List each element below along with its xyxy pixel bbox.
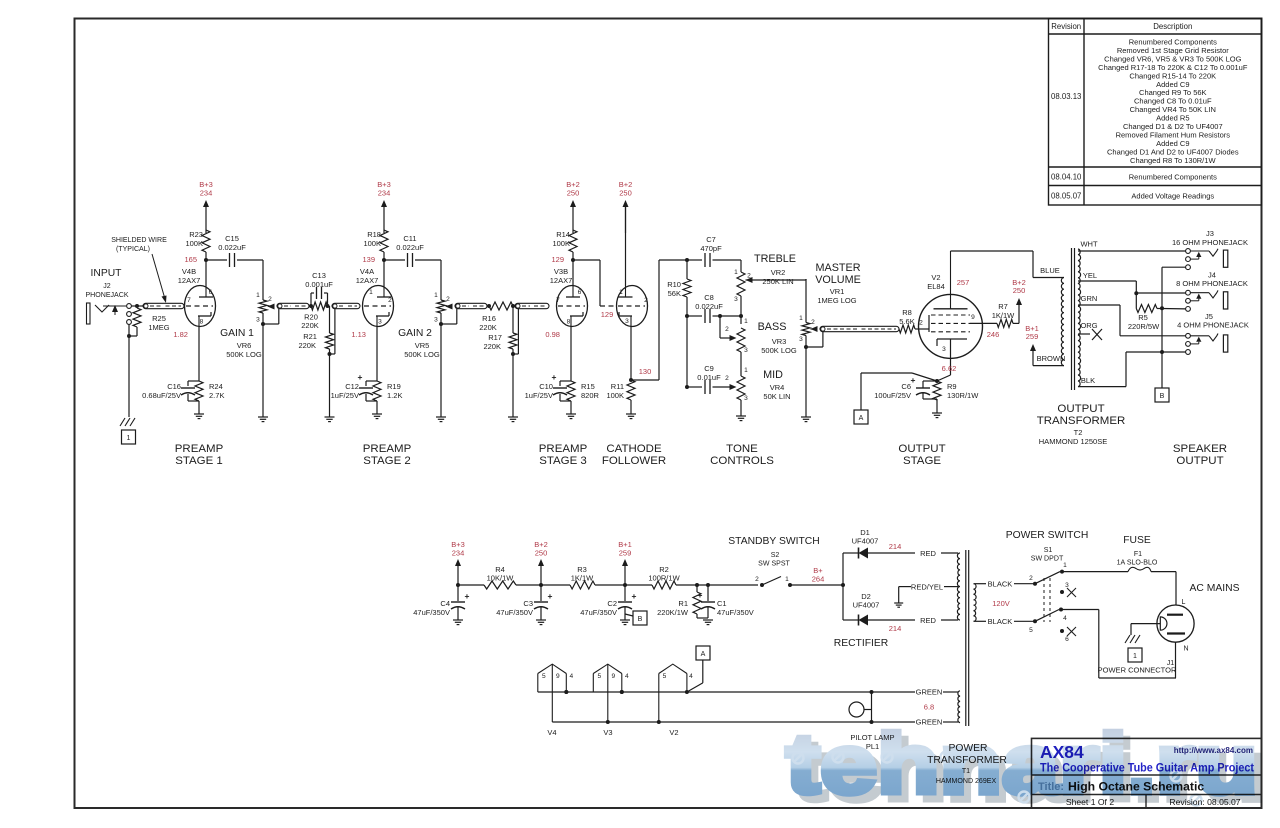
svg-text:+: + (552, 372, 557, 382)
svg-text:16 OHM PHONEJACK: 16 OHM PHONEJACK (1172, 238, 1248, 247)
svg-text:VR5: VR5 (415, 341, 430, 350)
svg-text:5.6K: 5.6K (899, 317, 914, 326)
svg-text:4: 4 (689, 673, 693, 680)
svg-text:V3: V3 (603, 728, 612, 737)
svg-text:+: + (358, 372, 363, 382)
svg-text:S1: S1 (1044, 547, 1053, 554)
svg-text:OUTPUT: OUTPUT (1176, 455, 1223, 467)
svg-text:R17: R17 (488, 333, 502, 342)
svg-text:SPEAKER: SPEAKER (1173, 443, 1227, 455)
svg-text:1A SLO-BLO: 1A SLO-BLO (1117, 560, 1158, 567)
svg-text:5: 5 (1029, 627, 1033, 634)
svg-text:C4: C4 (440, 599, 450, 608)
svg-text:C10: C10 (539, 382, 553, 391)
svg-text:CATHODE: CATHODE (606, 443, 662, 455)
svg-text:100K: 100K (185, 239, 203, 248)
svg-text:250: 250 (567, 188, 580, 197)
svg-text:STANDBY SWITCH: STANDBY SWITCH (728, 536, 819, 547)
svg-text:J3: J3 (1206, 229, 1214, 238)
svg-text:130R/1W: 130R/1W (947, 391, 979, 400)
svg-text:1: 1 (127, 435, 131, 442)
svg-text:47uF/350V: 47uF/350V (413, 608, 450, 617)
svg-text:130: 130 (639, 367, 652, 376)
svg-text:500K LOG: 500K LOG (226, 350, 262, 359)
svg-text:1: 1 (1133, 653, 1137, 660)
svg-text:2: 2 (755, 576, 759, 583)
svg-text:GAIN 1: GAIN 1 (220, 328, 254, 339)
svg-text:12AX7: 12AX7 (356, 276, 379, 285)
svg-text:1K/1W: 1K/1W (571, 574, 594, 583)
svg-text:R9: R9 (947, 382, 957, 391)
svg-text:257: 257 (957, 278, 970, 287)
svg-text:C9: C9 (704, 364, 714, 373)
svg-text:F1: F1 (1134, 551, 1142, 558)
svg-text:08.03.13: 08.03.13 (1051, 92, 1081, 101)
svg-text:+: + (911, 375, 916, 385)
svg-text:820R: 820R (581, 391, 600, 400)
svg-text:2: 2 (725, 375, 729, 382)
svg-text:3: 3 (744, 347, 748, 354)
svg-text:100uF/25V: 100uF/25V (874, 391, 911, 400)
svg-text:RED: RED (920, 616, 936, 625)
svg-text:SHIELDED WIRE: SHIELDED WIRE (111, 237, 167, 244)
svg-text:V4: V4 (547, 728, 556, 737)
svg-text:WHT: WHT (1080, 240, 1098, 249)
svg-text:1.13: 1.13 (351, 330, 366, 339)
svg-text:2: 2 (747, 273, 751, 280)
svg-text:56K: 56K (668, 289, 681, 298)
svg-text:3: 3 (625, 318, 629, 325)
svg-text:100K: 100K (552, 239, 570, 248)
svg-text:GAIN 2: GAIN 2 (398, 328, 432, 339)
svg-text:C13: C13 (312, 271, 326, 280)
svg-text:(TYPICAL): (TYPICAL) (116, 246, 150, 253)
svg-text:234: 234 (452, 548, 465, 557)
svg-text:1uF/25V: 1uF/25V (525, 391, 553, 400)
svg-text:Added Voltage Readings: Added Voltage Readings (1131, 192, 1214, 201)
svg-text:C6: C6 (901, 382, 911, 391)
svg-text:C15: C15 (225, 234, 239, 243)
svg-text:OUTPUT: OUTPUT (1057, 403, 1104, 415)
svg-text:129: 129 (601, 310, 614, 319)
svg-text:VR6: VR6 (237, 341, 252, 350)
svg-text:TREBLE: TREBLE (754, 253, 796, 265)
svg-text:2: 2 (644, 297, 648, 304)
svg-text:SW SPST: SW SPST (758, 561, 790, 568)
svg-text:6: 6 (578, 289, 582, 296)
svg-text:VR2: VR2 (771, 268, 786, 277)
svg-text:EL84: EL84 (927, 282, 945, 291)
svg-text:R10: R10 (667, 280, 681, 289)
svg-text:2: 2 (388, 297, 392, 304)
svg-text:C2: C2 (607, 599, 617, 608)
svg-text:STAGE 1: STAGE 1 (175, 455, 223, 467)
svg-text:2: 2 (725, 326, 729, 333)
svg-text:R15: R15 (581, 382, 595, 391)
svg-text:250: 250 (535, 548, 548, 557)
svg-text:2.7K: 2.7K (209, 391, 224, 400)
svg-text:R14: R14 (556, 230, 570, 239)
svg-text:08.04.10: 08.04.10 (1051, 173, 1082, 182)
svg-text:T2: T2 (1074, 428, 1083, 437)
svg-text:R11: R11 (611, 382, 624, 391)
svg-text:120V: 120V (992, 599, 1010, 608)
svg-text:OUTPUT: OUTPUT (898, 443, 945, 455)
svg-text:PREAMP: PREAMP (363, 443, 412, 455)
svg-text:HAMMOND 1250SE: HAMMOND 1250SE (1039, 437, 1108, 446)
svg-text:0.001uF: 0.001uF (305, 280, 333, 289)
svg-text:264: 264 (812, 575, 825, 584)
svg-text:BASS: BASS (758, 321, 787, 333)
svg-text:POWER SWITCH: POWER SWITCH (1006, 530, 1089, 541)
svg-text:100R/1W: 100R/1W (648, 574, 680, 583)
svg-text:220K: 220K (483, 342, 501, 351)
svg-text:3: 3 (378, 319, 382, 326)
svg-text:VOLUME: VOLUME (815, 274, 861, 286)
svg-text:R24: R24 (209, 382, 223, 391)
svg-text:9: 9 (971, 314, 975, 321)
svg-text:1uF/25V: 1uF/25V (331, 391, 359, 400)
svg-text:165: 165 (184, 255, 197, 264)
svg-text:S2: S2 (771, 552, 780, 559)
svg-text:+: + (548, 591, 553, 601)
svg-text:214: 214 (889, 624, 902, 633)
svg-text:234: 234 (200, 188, 213, 197)
svg-text:PREAMP: PREAMP (539, 443, 588, 455)
svg-text:6.62: 6.62 (942, 364, 957, 373)
svg-text:3: 3 (942, 346, 946, 353)
svg-text:V4A: V4A (360, 267, 374, 276)
svg-text:C8: C8 (704, 293, 714, 302)
svg-text:V3B: V3B (554, 267, 568, 276)
svg-text:220K: 220K (479, 323, 497, 332)
svg-text:220K: 220K (301, 321, 319, 330)
svg-text:C1: C1 (717, 599, 727, 608)
svg-text:FUSE: FUSE (1123, 535, 1151, 546)
svg-text:10K/1W: 10K/1W (487, 574, 515, 583)
svg-text:3: 3 (744, 395, 748, 402)
svg-text:C3: C3 (523, 599, 533, 608)
svg-text:0.01uF: 0.01uF (697, 373, 721, 382)
svg-text:100K: 100K (606, 391, 624, 400)
svg-text:47uF/350V: 47uF/350V (496, 608, 533, 617)
svg-text:TRANSFORMER: TRANSFORMER (1037, 415, 1126, 427)
svg-text:N: N (1183, 646, 1188, 653)
svg-text:R21: R21 (303, 332, 317, 341)
svg-text:9: 9 (556, 673, 560, 680)
svg-text:1MEG: 1MEG (148, 323, 169, 332)
svg-text:1: 1 (369, 289, 373, 296)
svg-text:7: 7 (187, 297, 191, 304)
svg-text:tehnari.ru: tehnari.ru (786, 717, 1258, 811)
svg-text:1.82: 1.82 (173, 330, 188, 339)
svg-text:2: 2 (919, 320, 923, 327)
svg-text:C7: C7 (706, 235, 716, 244)
svg-text:259: 259 (619, 548, 632, 557)
svg-text:7: 7 (556, 297, 560, 304)
svg-text:9: 9 (611, 673, 615, 680)
svg-text:J2: J2 (103, 283, 111, 290)
svg-text:1: 1 (256, 292, 260, 299)
svg-text:R7: R7 (998, 302, 1008, 311)
svg-text:BROWN: BROWN (1037, 354, 1066, 363)
svg-text:CONTROLS: CONTROLS (710, 455, 774, 467)
svg-text:STAGE 3: STAGE 3 (539, 455, 587, 467)
svg-text:TONE: TONE (726, 443, 758, 455)
svg-text:0.68uF/25V: 0.68uF/25V (142, 391, 181, 400)
svg-text:Description: Description (1153, 22, 1192, 31)
svg-text:Renumbered Components: Renumbered Components (1129, 173, 1217, 182)
svg-text:+: + (632, 591, 637, 601)
svg-text:B: B (638, 616, 643, 623)
svg-text:INPUT: INPUT (91, 268, 123, 279)
svg-text:UF4007: UF4007 (853, 601, 880, 610)
svg-text:R16: R16 (482, 314, 496, 323)
svg-text:2: 2 (268, 296, 272, 303)
svg-text:50K LIN: 50K LIN (763, 392, 790, 401)
svg-text:47uF/350V: 47uF/350V (717, 608, 754, 617)
svg-text:500K LOG: 500K LOG (761, 346, 797, 355)
svg-text:Changed R8 To 130R/1W: Changed R8 To 130R/1W (1130, 156, 1216, 165)
svg-text:VR3: VR3 (772, 337, 787, 346)
svg-text:C11: C11 (403, 234, 416, 243)
svg-text:3: 3 (734, 296, 738, 303)
svg-text:A: A (701, 651, 706, 658)
svg-text:500K LOG: 500K LOG (404, 350, 440, 359)
svg-text:C16: C16 (167, 382, 181, 391)
svg-text:R19: R19 (387, 382, 401, 391)
svg-text:1: 1 (744, 318, 748, 325)
svg-text:8: 8 (200, 319, 204, 326)
svg-text:100K: 100K (363, 239, 381, 248)
svg-text:6: 6 (1065, 636, 1069, 643)
svg-text:4: 4 (1063, 615, 1067, 622)
svg-text:R5: R5 (1138, 313, 1148, 322)
svg-text:PREAMP: PREAMP (175, 443, 224, 455)
svg-text:8 OHM PHONEJACK: 8 OHM PHONEJACK (1176, 279, 1248, 288)
svg-text:1: 1 (1063, 562, 1067, 569)
svg-text:3: 3 (434, 317, 438, 324)
svg-text:STAGE: STAGE (903, 455, 941, 467)
svg-text:R1: R1 (678, 599, 688, 608)
svg-text:AC MAINS: AC MAINS (1190, 583, 1240, 594)
svg-text:6.8: 6.8 (924, 703, 934, 712)
svg-text:BLACK: BLACK (988, 580, 1013, 589)
svg-text:BLUE: BLUE (1040, 266, 1060, 275)
svg-text:2: 2 (446, 296, 450, 303)
svg-text:V2: V2 (669, 728, 678, 737)
svg-text:ORG: ORG (1080, 321, 1097, 330)
svg-text:1: 1 (434, 292, 438, 299)
svg-text:SW DPDT: SW DPDT (1031, 556, 1064, 563)
svg-text:V2: V2 (931, 273, 940, 282)
svg-text:1: 1 (734, 269, 738, 276)
svg-text:470pF: 470pF (700, 244, 722, 253)
svg-text:47uF/350V: 47uF/350V (580, 608, 617, 617)
svg-text:+: + (698, 590, 703, 600)
svg-text:220R/5W: 220R/5W (1128, 322, 1160, 331)
svg-text:R23: R23 (189, 230, 203, 239)
svg-text:B: B (1160, 393, 1165, 400)
svg-text:GREEN: GREEN (916, 688, 943, 697)
svg-text:1: 1 (619, 289, 623, 296)
svg-text:3: 3 (256, 317, 260, 324)
svg-text:BLACK: BLACK (988, 617, 1013, 626)
svg-text:5: 5 (663, 673, 667, 680)
svg-text:1: 1 (785, 576, 789, 583)
svg-text:0.022uF: 0.022uF (695, 302, 723, 311)
svg-text:234: 234 (378, 188, 391, 197)
svg-text:RECTIFIER: RECTIFIER (834, 638, 889, 649)
svg-text:4: 4 (625, 673, 629, 680)
svg-text:246: 246 (987, 330, 1000, 339)
svg-text:0.022uF: 0.022uF (218, 243, 246, 252)
svg-text:YEL: YEL (1083, 271, 1097, 280)
svg-text:12AX7: 12AX7 (550, 276, 573, 285)
svg-text:POWER CONNECTOR: POWER CONNECTOR (1098, 666, 1177, 675)
svg-text:220K/1W: 220K/1W (657, 608, 689, 617)
svg-text:1: 1 (744, 367, 748, 374)
svg-text:FOLLOWER: FOLLOWER (602, 455, 666, 467)
svg-text:VR1: VR1 (830, 287, 845, 296)
svg-text:STAGE 2: STAGE 2 (363, 455, 411, 467)
svg-text:C12: C12 (345, 382, 359, 391)
svg-text:4: 4 (569, 673, 573, 680)
svg-text:250K LIN: 250K LIN (762, 277, 793, 286)
svg-text:6: 6 (209, 289, 213, 296)
svg-text:Revision: Revision (1051, 22, 1081, 31)
svg-text:4 OHM PHONEJACK: 4 OHM PHONEJACK (1177, 320, 1249, 329)
svg-text:259: 259 (1026, 332, 1039, 341)
svg-text:220K: 220K (298, 341, 316, 350)
svg-text:250: 250 (619, 188, 632, 197)
svg-text:GRN: GRN (1081, 294, 1098, 303)
svg-text:RED/YEL: RED/YEL (911, 583, 943, 592)
svg-text:+: + (465, 591, 470, 601)
svg-text:A: A (859, 415, 864, 422)
svg-text:V4B: V4B (182, 267, 196, 276)
svg-text:UF4007: UF4007 (852, 537, 879, 546)
svg-text:12AX7: 12AX7 (178, 276, 201, 285)
svg-text:0.022uF: 0.022uF (396, 243, 424, 252)
svg-text:RED: RED (920, 549, 936, 558)
svg-text:129: 129 (551, 255, 564, 264)
svg-text:2: 2 (811, 319, 815, 326)
svg-text:08.05.07: 08.05.07 (1051, 192, 1081, 201)
svg-text:MID: MID (763, 369, 783, 381)
svg-text:0.98: 0.98 (545, 330, 560, 339)
svg-text:139: 139 (362, 255, 375, 264)
svg-text:3: 3 (799, 336, 803, 343)
svg-text:214: 214 (889, 542, 902, 551)
svg-text:R18: R18 (367, 230, 381, 239)
svg-text:L: L (1182, 599, 1186, 606)
svg-text:R8: R8 (902, 308, 912, 317)
svg-text:1K/1W: 1K/1W (992, 311, 1015, 320)
svg-text:8: 8 (567, 319, 571, 326)
svg-text:5: 5 (597, 673, 601, 680)
svg-text:VR4: VR4 (770, 383, 785, 392)
svg-text:1: 1 (799, 315, 803, 322)
svg-text:R25: R25 (152, 314, 166, 323)
svg-text:PHONEJACK: PHONEJACK (85, 292, 128, 299)
svg-text:MASTER: MASTER (816, 262, 861, 274)
svg-text:1MEG LOG: 1MEG LOG (817, 296, 856, 305)
svg-text:1.2K: 1.2K (387, 391, 402, 400)
svg-text:2: 2 (1029, 575, 1033, 582)
svg-text:250: 250 (1013, 286, 1026, 295)
svg-text:5: 5 (542, 673, 546, 680)
svg-text:BLK: BLK (1081, 376, 1095, 385)
